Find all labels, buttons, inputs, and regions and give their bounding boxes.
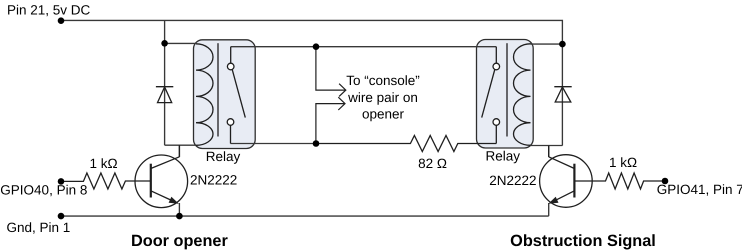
console stub upper	[316, 47, 346, 97]
node GPIO41	[662, 178, 669, 185]
wire Q1 emitter to ground	[178, 203, 180, 216]
svg-text:To “console”: To “console”	[346, 73, 420, 88]
svg-text:Relay: Relay	[206, 149, 241, 164]
node console bottom	[313, 140, 320, 147]
wire drop to D1/K1 junction	[164, 20, 166, 43]
svg-text:Relay: Relay	[486, 148, 521, 163]
relay K2 switch	[482, 47, 500, 144]
wire Q2 emitter to ground	[548, 203, 550, 216]
wire Q2 collector riser	[548, 146, 550, 158]
node GPIO40	[58, 178, 65, 185]
transistor Q1 emitter arrow	[169, 197, 179, 204]
wire K1 coil top entry	[165, 42, 196, 44]
wire Q1 collector riser	[178, 145, 180, 157]
node console top	[313, 43, 320, 50]
svg-text:2N2222: 2N2222	[489, 173, 536, 188]
resistor R1 1 kOhm	[61, 173, 151, 189]
wire ground rail	[61, 215, 549, 217]
svg-text:GPIO40, Pin 8: GPIO40, Pin 8	[0, 183, 87, 198]
transistor Q1	[135, 145, 188, 207]
console stub lower	[316, 97, 345, 143]
node D2 top junction	[559, 41, 566, 48]
svg-text:Obstruction Signal: Obstruction Signal	[510, 232, 656, 250]
wire 5V supply rail	[61, 20, 562, 44]
transistor Q2 emitter arrow	[548, 197, 558, 204]
diode D2	[554, 87, 571, 102]
wire K1 coil bottom exit	[165, 144, 196, 146]
transistor Q2	[540, 146, 593, 208]
node D1 top junction	[161, 40, 168, 47]
svg-text:Door opener: Door opener	[131, 232, 228, 250]
svg-text:82 Ω: 82 Ω	[418, 156, 447, 171]
svg-text:opener: opener	[362, 107, 405, 122]
node Gnd	[58, 213, 65, 220]
node Pin21	[58, 17, 65, 24]
relay K1 body	[194, 40, 256, 149]
relay K2 body	[477, 40, 534, 149]
svg-text:2N2222: 2N2222	[190, 173, 237, 188]
wire D1 branch vertical	[164, 43, 166, 145]
svg-text:1 kΩ: 1 kΩ	[90, 156, 118, 171]
wire K2 coil top entry	[531, 43, 563, 45]
svg-text:GPIO41, Pin 7: GPIO41, Pin 7	[657, 182, 742, 197]
relay K1 coil	[196, 43, 218, 145]
svg-text:Pin 21, 5v DC: Pin 21, 5v DC	[7, 2, 91, 17]
wire relay switch top line K1 to K2	[231, 46, 497, 48]
wire K2 coil bottom exit	[531, 145, 563, 147]
svg-text:1 kΩ: 1 kΩ	[609, 155, 637, 170]
svg-text:Gnd, Pin 1: Gnd, Pin 1	[7, 220, 71, 235]
resistor R2 1 kOhm	[574, 173, 665, 189]
diode D1	[156, 87, 173, 103]
node Q1 emitter junction	[176, 213, 183, 220]
relay K2 coil	[507, 43, 531, 145]
resistor R3 82 Ohm	[316, 136, 496, 152]
wire K1 switch bottom to node	[231, 143, 317, 145]
wire D2 branch vertical	[561, 44, 563, 146]
relay K1 switch	[227, 47, 245, 144]
svg-text:wire pair on: wire pair on	[347, 90, 418, 105]
